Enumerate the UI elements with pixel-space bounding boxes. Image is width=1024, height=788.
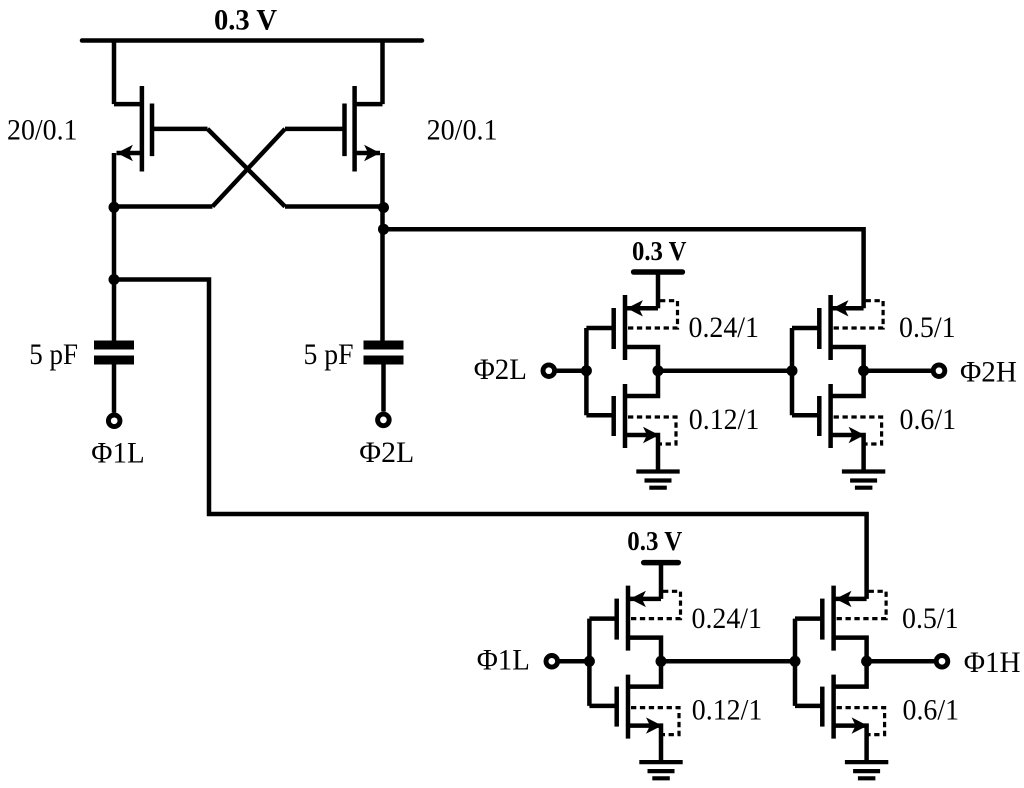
svg-text:0.6/1: 0.6/1	[900, 403, 957, 436]
svg-text:Φ2H: Φ2H	[960, 356, 1017, 389]
svg-text:0.12/1: 0.12/1	[692, 694, 763, 727]
svg-text:5 pF: 5 pF	[304, 338, 354, 371]
svg-text:0.3 V: 0.3 V	[627, 526, 682, 556]
svg-text:0.5/1: 0.5/1	[902, 602, 959, 635]
svg-text:0.3 V: 0.3 V	[632, 236, 687, 266]
svg-text:Φ1L: Φ1L	[91, 437, 144, 470]
svg-text:0.6/1: 0.6/1	[903, 694, 960, 727]
svg-text:20/0.1: 20/0.1	[427, 113, 498, 146]
svg-text:Φ1L: Φ1L	[477, 643, 530, 676]
svg-text:0.24/1: 0.24/1	[692, 602, 763, 635]
svg-text:0.5/1: 0.5/1	[899, 311, 956, 344]
svg-text:5 pF: 5 pF	[29, 338, 78, 371]
svg-text:Φ2L: Φ2L	[359, 436, 414, 469]
svg-text:0.24/1: 0.24/1	[689, 311, 760, 344]
svg-text:0.3 V: 0.3 V	[214, 4, 277, 37]
svg-text:Φ2L: Φ2L	[474, 353, 527, 386]
svg-text:Φ1H: Φ1H	[964, 646, 1021, 679]
svg-text:0.12/1: 0.12/1	[689, 403, 760, 436]
svg-text:20/0.1: 20/0.1	[7, 113, 78, 146]
